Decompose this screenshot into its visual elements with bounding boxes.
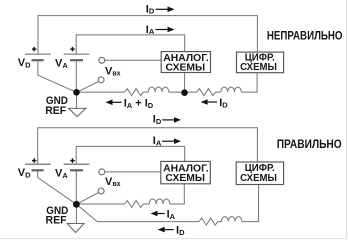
resistor R1 [125, 89, 144, 96]
wire R1 to L1 [143, 91, 148, 93]
battery VD2 plates [25, 164, 51, 170]
page border right [346, 0, 348, 239]
label IA+ID return current arrow [106, 100, 113, 106]
wire GND node to resistor R3 [76, 203, 124, 205]
battery VA2 plus sign [70, 158, 75, 163]
digital box U4 [236, 162, 283, 185]
wire Vbx lower terminal to GND node [77, 82, 99, 93]
Vbx2 input terminal circle [99, 169, 105, 175]
wire GND node diagonal to ID return line [76, 204, 199, 221]
resistor R4 [199, 218, 218, 225]
wire VD2 negative to GND node [38, 171, 77, 205]
Vbx2 lower terminal circle [98, 188, 104, 194]
battery VD plates [25, 54, 51, 60]
junction dot under analog box [181, 89, 188, 96]
wire R3 to L3 [143, 203, 149, 205]
battery VD2 plus sign [32, 158, 37, 163]
wire R2 to L2 [216, 91, 221, 93]
wire VA2 negative to GND node [75, 171, 77, 205]
battery VA plus sign [70, 47, 75, 52]
label IA return arrow (bottom circuit) [151, 211, 158, 217]
label ID return current arrow (top circuit) [201, 99, 208, 105]
Vbx lower terminal circle [98, 77, 104, 83]
wire GND node to ground symbol (bottom) [75, 204, 77, 223]
inductor L3 [149, 199, 170, 204]
wire VA negative to GND node [75, 61, 77, 93]
wire L2 to digital box bottom [241, 73, 257, 92]
battery VA2 plates [64, 164, 90, 170]
wire L3 to analog box bottom [170, 184, 185, 204]
wire L4 to digital box bottom [242, 185, 259, 222]
wire IA rail [76, 35, 185, 54]
wire GND node to ground symbol [76, 92, 78, 108]
ground symbol (bottom) [67, 224, 84, 233]
svg-text:СХЕМЫ: СХЕМЫ [165, 173, 205, 184]
battery VD plus sign [32, 47, 37, 52]
inductor L1 [148, 87, 169, 92]
wire Vbx2 lower terminal to GND node [76, 193, 98, 205]
Vbx input terminal circle [99, 57, 105, 63]
label ID return arrow (bottom circuit) [158, 227, 165, 233]
GND node dot (bottom) [73, 201, 80, 208]
GND node dot [73, 89, 80, 96]
ground symbol [69, 108, 86, 116]
inductor L4 [221, 217, 242, 222]
svg-text:ПРАВИЛЬНО: ПРАВИЛЬНО [277, 137, 342, 151]
svg-text:НЕПРАВИЛЬНО: НЕПРАВИЛЬНО [267, 28, 343, 42]
wire Vbx2 terminal to analog box [105, 171, 161, 173]
inductor L2 [221, 87, 242, 92]
wire ID top rail [38, 16, 257, 55]
svg-text:REF: REF [45, 105, 66, 117]
battery VA plates [64, 54, 90, 60]
wire IA rail (bottom circuit) [76, 146, 185, 164]
wire L1 to junction [169, 91, 197, 93]
analog box U1 [161, 52, 210, 73]
wire VD negative to GND node [38, 61, 77, 93]
svg-text:REF: REF [46, 215, 67, 227]
wire analog box bottom to junction [184, 73, 186, 93]
resistor R2 [197, 89, 216, 96]
wire Vbx terminal to analog box [105, 59, 161, 61]
wire ID top rail (bottom circuit) [38, 128, 258, 164]
wire GND node to resistor R1 [77, 91, 125, 93]
svg-text:СХЕМЫ: СХЕМЫ [166, 62, 206, 73]
svg-text:СХЕМЫ: СХЕМЫ [240, 62, 277, 73]
digital box U2 [237, 52, 284, 73]
svg-text:СХЕМЫ: СХЕМЫ [240, 173, 277, 184]
analog box U3 [161, 161, 211, 183]
page border bottom [0, 238, 347, 240]
wire R4 to L4 [218, 221, 222, 223]
resistor R3 [125, 201, 144, 208]
